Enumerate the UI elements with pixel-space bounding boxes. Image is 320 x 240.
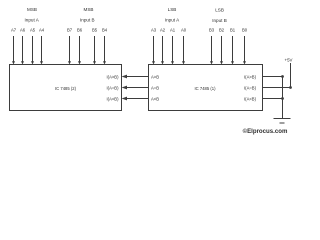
svg-text:A1: A1	[170, 28, 176, 33]
svg-text:A6: A6	[20, 28, 26, 33]
svg-text:MSB: MSB	[84, 7, 94, 12]
svg-text:Input B: Input B	[80, 17, 95, 22]
pin label A2	[160, 28, 166, 33]
wire input A6	[21, 36, 24, 65]
pin label B4	[102, 28, 108, 33]
pin label A&lt;B of U1	[151, 96, 159, 101]
svg-text:Input A: Input A	[25, 17, 40, 22]
wire ground rail vertical	[282, 77, 284, 119]
svg-text:A<B: A<B	[151, 96, 159, 101]
pin label A7	[11, 28, 17, 33]
power +5V	[285, 58, 293, 88]
pin label I(A&gt;B) of U2	[107, 74, 120, 79]
svg-text:B7: B7	[67, 28, 73, 33]
svg-text:I(A<B): I(A<B)	[244, 96, 257, 101]
label MSB Input B	[80, 7, 95, 22]
wire input A4	[40, 36, 43, 65]
pin label A5	[30, 28, 36, 33]
wire input B3	[210, 36, 213, 65]
svg-text:B6: B6	[77, 28, 83, 33]
pin label I(A=B) of U1	[244, 85, 257, 90]
svg-text:A>B: A>B	[151, 74, 159, 79]
pin label B1	[230, 28, 236, 33]
pin label A0	[181, 28, 187, 33]
svg-text:I(A=B): I(A=B)	[107, 85, 120, 90]
svg-text:Input A: Input A	[165, 18, 180, 23]
svg-text:LSB: LSB	[168, 7, 177, 12]
watermark Elprocus.com	[243, 128, 288, 135]
wire input B1	[231, 36, 234, 65]
svg-text:A=B: A=B	[151, 85, 159, 90]
svg-text:MSB: MSB	[27, 7, 37, 12]
pin label I(A&lt;B) of U1	[244, 96, 257, 101]
svg-text:A0: A0	[181, 28, 187, 33]
svg-text:I(A<B): I(A<B)	[107, 96, 120, 101]
pin label A6	[20, 28, 26, 33]
wire I(A&gt;B) of U1 to ground rail	[263, 76, 283, 78]
wire input B6	[78, 36, 81, 65]
wire I(A=B) of U1 to +5V rail	[263, 87, 291, 89]
pin label B0	[242, 28, 248, 33]
svg-text:A7: A7	[11, 28, 17, 33]
svg-text:B5: B5	[92, 28, 98, 33]
wire I(A&lt;B) of U1 to ground rail	[263, 98, 283, 100]
IC U2 (IC 7485 (2))	[10, 65, 122, 111]
svg-text:+5V: +5V	[285, 58, 293, 63]
svg-text:IC 7485 (2): IC 7485 (2)	[55, 86, 77, 91]
wire input A2	[161, 36, 164, 65]
svg-text:LSB: LSB	[215, 8, 224, 13]
wire input B0	[243, 36, 246, 65]
wire input A1	[171, 36, 174, 65]
svg-text:B4: B4	[102, 28, 108, 33]
pin label I(A&gt;B) of U1	[244, 74, 257, 79]
junction dot at I(A&gt;B)/ground rail	[281, 75, 284, 78]
junction dot at I(A=B)/+5V rail	[289, 86, 292, 89]
ground	[274, 119, 291, 124]
svg-text:I(A>B): I(A>B)	[107, 74, 120, 79]
wire input A5	[31, 36, 34, 65]
pin label A1	[170, 28, 176, 33]
wire input A7	[12, 36, 15, 65]
svg-text:B0: B0	[242, 28, 248, 33]
wire cascade A=B (U1 output to U2 cascade input)	[122, 86, 149, 90]
svg-text:I(A=B): I(A=B)	[244, 85, 257, 90]
wire input B2	[220, 36, 223, 65]
svg-text:A4: A4	[39, 28, 45, 33]
pin label B2	[219, 28, 225, 33]
wire input B7	[68, 36, 71, 65]
wire cascade A&lt;B (U1 output to U2 cascade input)	[122, 97, 149, 101]
pin label A=B of U1	[151, 85, 159, 90]
label MSB Input A	[25, 7, 40, 22]
svg-text:I(A>B): I(A>B)	[244, 74, 257, 79]
pin label I(A=B) of U2	[107, 85, 120, 90]
svg-text:©Elprocus.com: ©Elprocus.com	[243, 128, 288, 135]
svg-text:B1: B1	[230, 28, 236, 33]
pin label B5	[92, 28, 98, 33]
IC U1 (IC 7485 (1))	[149, 65, 263, 111]
svg-text:IC 7485 (1): IC 7485 (1)	[195, 86, 217, 91]
svg-text:A2: A2	[160, 28, 166, 33]
pin label B6	[77, 28, 83, 33]
pin label B7	[67, 28, 73, 33]
svg-text:A5: A5	[30, 28, 36, 33]
pin label I(A&lt;B) of U2	[107, 96, 120, 101]
label LSB Input B	[212, 8, 227, 24]
wire input B5	[93, 36, 96, 65]
wire input A0	[182, 36, 185, 65]
pin label B3	[209, 28, 215, 33]
wire input B4	[103, 36, 106, 65]
svg-text:B2: B2	[219, 28, 225, 33]
pin label A4	[39, 28, 45, 33]
pin label A3	[151, 28, 157, 33]
wire cascade A&gt;B (U1 output to U2 cascade input)	[122, 75, 149, 79]
wire input A3	[152, 36, 155, 65]
svg-text:Input B: Input B	[212, 18, 227, 23]
label LSB Input A	[165, 7, 180, 23]
svg-text:A3: A3	[151, 28, 157, 33]
junction dot at I(A&lt;B)/ground rail	[281, 97, 284, 100]
pin label A&gt;B of U1	[151, 74, 159, 79]
svg-text:B3: B3	[209, 28, 215, 33]
